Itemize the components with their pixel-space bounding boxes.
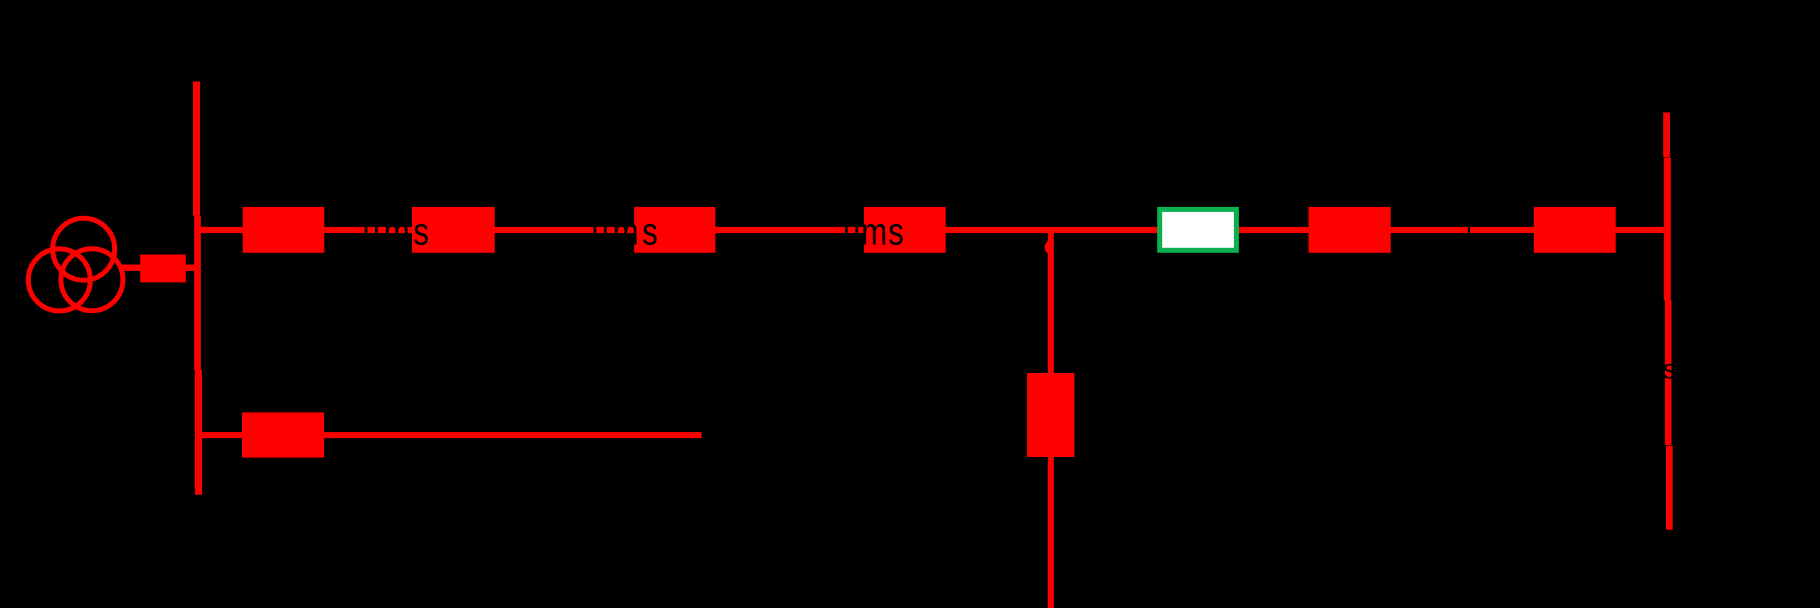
breaker CB3 <box>634 207 715 253</box>
right busbar (vertical, segment 4) <box>1666 446 1673 530</box>
breaker CB4 <box>864 207 946 253</box>
wire breaker to left busbar <box>186 265 195 271</box>
left busbar (vertical, middle segment) <box>194 216 201 370</box>
wire transformer to breaker <box>121 265 141 271</box>
breaker CB8 (lower feeder) <box>242 412 324 457</box>
right busbar (vertical, segment 2) <box>1664 158 1671 301</box>
breaker CB6 <box>1534 207 1616 253</box>
svg-text:ums: ums <box>592 212 662 254</box>
feeder wire A (main horizontal run, y=227) <box>200 227 1664 233</box>
left busbar (vertical, upper segment) <box>193 82 200 216</box>
left busbar (vertical, lower segment) <box>195 370 202 495</box>
breaker CB0 (transformer incomer, small red box) <box>140 255 186 283</box>
breaker CB5 <box>1309 207 1391 253</box>
feeder wire B stub (left busbar to breaker) <box>200 432 242 438</box>
feeder wire B (continuation) <box>324 432 701 438</box>
transformer T1 (three-winding, three overlapping circles) <box>28 218 123 311</box>
right busbar (vertical, segment 3) <box>1665 301 1672 446</box>
svg-text:s: s <box>1663 353 1677 384</box>
breaker CB7 (vertical, on drop) <box>1027 373 1074 457</box>
breaker CB1 <box>243 207 325 253</box>
switch S1 (closed isolator, green box white fill) <box>1160 209 1237 250</box>
breaker CB2 <box>412 207 495 253</box>
svg-text:ums: ums <box>843 212 905 254</box>
wire (vertical drop from junction to bottom edge) <box>1048 229 1054 608</box>
svg-text:ums: ums <box>363 212 433 254</box>
wire gap (black break in feeder wire) <box>1468 226 1470 235</box>
right busbar (vertical, segment 1) <box>1663 113 1670 158</box>
junction node (bump on drop line) <box>1045 240 1052 254</box>
